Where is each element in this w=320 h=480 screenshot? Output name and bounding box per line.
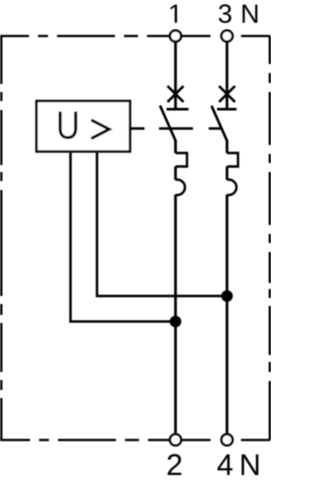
enclosure border left (dash-dot) <box>0 36 2 440</box>
fixed contact bar pole1 <box>167 108 189 111</box>
magnetic release arc pole2 <box>227 180 236 195</box>
contact blade pole2 <box>212 106 228 141</box>
wire pole2 upper <box>226 42 229 108</box>
undervoltage release box U <box>37 101 131 152</box>
thermal release square pole2 <box>227 153 238 167</box>
breaker function cross pole1 <box>168 86 184 102</box>
enclosure border right (dash-dot) <box>269 36 271 440</box>
wire from box to node B <box>97 153 222 296</box>
wire pole1 between releases <box>174 167 177 180</box>
terminal N bottom label <box>242 454 259 475</box>
terminal 2 label <box>168 454 182 475</box>
enclosure border bottom (dash-dot) <box>0 439 270 441</box>
breaker function cross pole2 <box>219 86 235 102</box>
junction node A <box>170 316 182 328</box>
terminal 1 label <box>171 5 177 23</box>
wire pole2 lower <box>226 195 229 435</box>
wire pole1 upper <box>174 42 177 108</box>
magnetic release arc pole1 <box>176 180 185 195</box>
junction node B <box>221 290 233 302</box>
contact blade pole1 <box>160 106 176 142</box>
wire from box to node A <box>71 153 171 322</box>
wire pole1 lower <box>174 195 177 435</box>
wire pole2 between releases <box>226 167 229 180</box>
thermal release square pole1 <box>176 153 188 167</box>
terminal 1 circle <box>170 30 181 41</box>
wire pole1 below blade <box>174 140 177 153</box>
terminal N top label <box>243 5 258 23</box>
fixed contact bar pole2 <box>217 108 237 111</box>
terminal 3 circle <box>221 30 232 41</box>
terminal 3 label <box>219 4 232 23</box>
mechanical linkage dashed line <box>131 127 221 130</box>
greater-than symbol <box>91 120 109 139</box>
terminal 2 circle <box>170 434 181 445</box>
terminal 4 label <box>217 454 232 475</box>
label U <box>59 112 78 139</box>
terminal 4 circle <box>221 434 232 445</box>
enclosure border top (dash-dot) <box>0 35 270 37</box>
wire pole2 below blade <box>226 140 229 153</box>
